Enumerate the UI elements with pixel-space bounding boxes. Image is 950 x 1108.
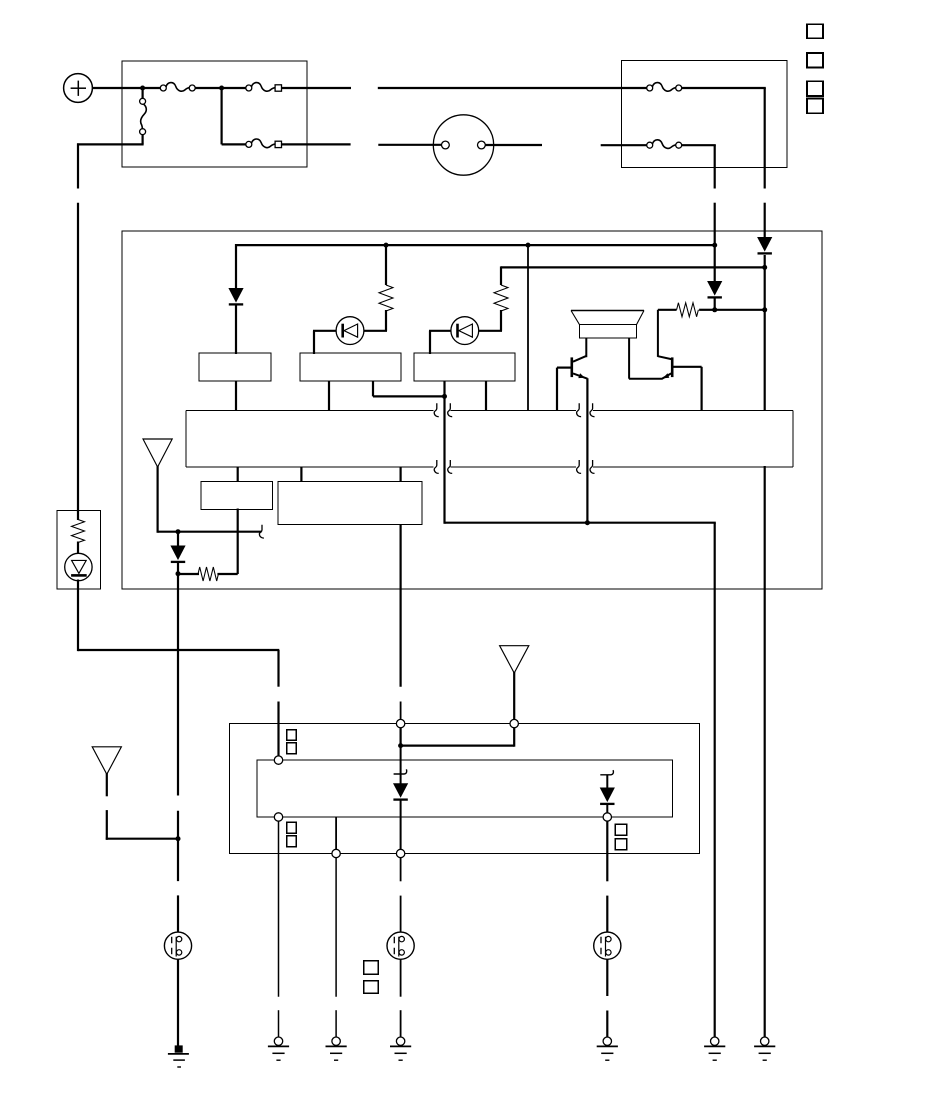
connector C3 <box>594 932 621 959</box>
wire ground lead 3 upper <box>400 858 402 882</box>
break mark diode D5 <box>394 769 407 774</box>
wire ground lead 1 lower <box>278 1010 280 1037</box>
wire BZ1 left pin <box>585 338 587 357</box>
wire D3 to node <box>714 297 716 311</box>
break mark bottom-right of wire A <box>448 460 453 473</box>
wire D2 branch below connector <box>764 466 766 1037</box>
transistor Q2 base wire <box>673 366 701 368</box>
fuse F5 <box>647 142 653 148</box>
connector label square 4 <box>807 99 823 114</box>
break mark top-right of wire B <box>590 403 595 416</box>
pin label square lower 2 <box>287 836 297 847</box>
wire D4 node down out of unit <box>177 574 179 796</box>
fuse F3 <box>246 141 252 147</box>
wire ground lead 5 lower <box>606 1011 608 1038</box>
connector label square 1 <box>807 24 823 38</box>
wire ground lead 5 upper <box>606 821 608 881</box>
connector row edge right side <box>792 410 794 467</box>
connector row edge bottom-mid segment <box>451 466 576 468</box>
node K2-K3 junction <box>442 394 447 399</box>
connector label square C2-1 <box>364 961 378 975</box>
terminal circle D6 output <box>603 813 611 821</box>
wire F3 output <box>281 143 350 145</box>
break mark diode D6 <box>600 770 613 775</box>
wire ground lead 5 below connector <box>606 959 608 996</box>
antenna symbol A1 <box>143 439 172 467</box>
wire pass-through A <box>443 396 445 523</box>
transistor Q2 emitter <box>629 373 671 378</box>
pin label square upper 2 <box>287 743 297 754</box>
wire node to F3 <box>221 87 223 144</box>
node relay internal <box>398 743 403 748</box>
wire Q1 emitter down <box>586 378 588 524</box>
wire right drop to diode D2 <box>764 238 766 240</box>
terminal circle inner bottom left <box>274 813 282 821</box>
break mark bottom-right of wire B <box>590 460 595 473</box>
transistor Q2 collector <box>658 356 671 359</box>
antenna symbol A2 <box>500 646 529 673</box>
diode D2 <box>757 237 772 252</box>
wire C1 to ground <box>177 959 179 1046</box>
connector row edge top-right segment <box>593 409 793 411</box>
transistor Q1 collector <box>573 356 586 362</box>
transistor Q1 base wire <box>557 367 571 369</box>
wire junction to diode D4 <box>177 532 179 546</box>
diode D6 <box>600 788 615 803</box>
wire to fuse box 2 lower <box>601 144 647 146</box>
wire D2 down to connector <box>764 255 766 411</box>
break mark top-right of wire A <box>448 403 453 416</box>
wire right drop lower segment <box>764 203 766 239</box>
wire K1 to connector row <box>235 381 237 411</box>
node A1-D4 junction <box>176 529 181 534</box>
wire A2 terminal down <box>513 728 515 747</box>
wire feed to resistor R2 <box>500 266 502 285</box>
break mark bottom-left of wire A <box>434 460 439 473</box>
node feed line 2 right <box>762 265 767 270</box>
fuse box 2 (under-dash fuse box) <box>622 61 788 168</box>
ground G7 <box>761 1037 769 1045</box>
wire A3 down upper <box>106 773 108 796</box>
fuse F1 <box>160 85 166 91</box>
wire left drop to connector C1 <box>177 811 179 881</box>
ground G4 bolt <box>175 1045 183 1052</box>
wire connector to K5 pin1 <box>300 467 302 482</box>
box K5 <box>278 482 422 525</box>
wire bus to diode D3 <box>714 245 716 282</box>
wire A3 down lower <box>106 810 108 840</box>
wire bottom bus <box>445 522 716 524</box>
wire BZ1 right pin <box>628 338 630 379</box>
node bus vertical feed <box>526 243 531 248</box>
wire K3 pin 1 down <box>443 381 445 397</box>
wire bottom bus down right <box>714 523 716 1037</box>
pin label square lower 1 <box>287 822 297 833</box>
terminal circle switch feed <box>332 849 340 857</box>
wire left drop upper segment <box>77 143 79 188</box>
connector row edge top-mid segment <box>451 409 576 411</box>
wire node to diode D5 <box>400 746 402 784</box>
ground G3 <box>396 1037 404 1045</box>
wire F5 to drop <box>682 144 716 146</box>
diode D1 <box>228 288 243 303</box>
wire R2 to LED2 <box>500 310 502 331</box>
box K4 <box>201 482 273 510</box>
wire connector to K5 pin2 <box>400 467 402 482</box>
node junction F1 output <box>219 86 224 91</box>
relay inner box outline <box>257 760 673 817</box>
terminal circle D5 output <box>396 849 404 857</box>
transistor Q2 bar <box>671 357 674 377</box>
ground G1 <box>274 1037 282 1045</box>
wire K2 pin 2 down <box>372 381 374 396</box>
wire K5 output down <box>400 524 402 686</box>
pin label square right 1 <box>615 824 627 835</box>
zener diode ZD1 circle <box>65 553 92 580</box>
wire D6 to terminal <box>606 804 608 814</box>
wire ground lead 2 lower <box>335 1010 337 1037</box>
battery B1 positive terminal <box>64 74 93 103</box>
wire LED1 to box K2 <box>313 330 337 332</box>
box K2 <box>300 353 401 381</box>
node D4 output <box>176 571 181 576</box>
fuse F2 <box>246 85 252 91</box>
terminal circle center drop <box>274 756 282 764</box>
connector label square 2 <box>807 53 823 67</box>
node emitter to bottom bus <box>585 520 590 525</box>
wire to ignition switch <box>378 144 442 146</box>
node diode line right <box>762 307 767 312</box>
connector label square 3 <box>807 81 823 96</box>
ground G6 <box>711 1037 719 1045</box>
wire ground lead 3 lower <box>400 1010 402 1037</box>
transistor Q1 emitter <box>573 373 587 378</box>
terminal circle A2 line <box>510 719 518 727</box>
wire ground lead 2 upper <box>335 858 337 997</box>
transistor Q1 emitter arrow <box>578 373 585 378</box>
node A3 to left drop <box>176 836 181 841</box>
ignition switch SW1 <box>433 115 493 175</box>
connector row edge bottom-right segment <box>593 466 793 468</box>
zener diode ZD1 triangle <box>72 560 87 573</box>
wire K3 pin 2 down <box>485 381 487 411</box>
box K1 <box>199 353 271 381</box>
wire mark to diode D6 <box>606 775 608 787</box>
wire resistor R3 right lead <box>699 309 715 311</box>
wire NS1 to center drop <box>78 649 279 651</box>
wire A1 down <box>157 466 159 533</box>
wire D5 to terminal <box>400 800 402 850</box>
wire ground lead 1 upper <box>278 821 280 997</box>
wire K5 output lower <box>400 702 402 720</box>
wire center drop lower <box>277 702 279 757</box>
wire FL1 to left drop <box>77 143 144 145</box>
antenna symbol A3 <box>92 747 121 775</box>
wire D4 to node <box>177 562 179 575</box>
fuse box 1 (main fuse box) <box>122 61 307 167</box>
wire ignition switch output <box>485 144 542 146</box>
wire battery to fuse box <box>92 87 161 89</box>
pin label square right 2 <box>615 839 627 850</box>
transistor Q2 emitter arrow <box>663 373 670 378</box>
control unit U1 outline <box>122 231 822 589</box>
box K3 <box>414 353 515 381</box>
ground G4 <box>168 1053 189 1055</box>
resistor R2 <box>494 285 508 311</box>
wire bus to resistor R1 <box>385 245 387 285</box>
wire A1 horizontal <box>158 531 262 533</box>
connector C1 <box>164 932 191 959</box>
wire R4 to box K4 <box>217 573 237 575</box>
wire node to resistor R4 <box>178 573 199 575</box>
wire left drop lower segment <box>77 203 79 512</box>
node bus-resistor R1 <box>384 243 389 248</box>
break mark top-left of wire B <box>577 403 582 416</box>
node D3 output <box>712 307 717 312</box>
wire connector to K4 <box>237 467 239 482</box>
diode D4 <box>170 546 185 561</box>
transistor Q1 bar <box>570 357 573 377</box>
wire drop to bus segment <box>714 203 716 247</box>
node junction battery feed <box>140 86 145 91</box>
terminal circle K5 line <box>396 719 404 727</box>
break mark top-left of wire A <box>434 403 439 416</box>
wire R5 to diode circle <box>77 542 79 555</box>
connector label square C2-2 <box>364 981 378 994</box>
wire bus to diode D1 <box>235 244 237 288</box>
fusible link FL1 <box>140 98 146 104</box>
resistor R1 <box>379 285 393 311</box>
resistor R4 <box>198 567 218 581</box>
wire relay internal bus <box>400 744 515 746</box>
photocoupler LED2 <box>451 317 479 345</box>
pin label square upper 1 <box>287 730 297 741</box>
noise suppressor NS1 box <box>57 511 101 590</box>
node bus right end <box>712 243 717 248</box>
diode D3 <box>707 281 722 296</box>
horn/buzzer BZ1 <box>571 310 644 312</box>
connector C2 <box>387 932 414 959</box>
wire R1 to LED1 <box>385 310 387 331</box>
ground G5 <box>603 1037 611 1045</box>
wire D1 to box K1 <box>235 305 237 354</box>
connector row edge bottom-left segment <box>186 466 433 468</box>
wire LED2 to box K3 <box>429 330 452 332</box>
diode D5 <box>393 783 408 798</box>
connector row edge left side <box>185 410 187 467</box>
wire F1 to node <box>195 87 246 89</box>
wire inner box to terminal <box>335 817 337 850</box>
wire A2 down <box>513 672 515 720</box>
wire node to node <box>715 309 765 311</box>
wire bus feed down to connector <box>527 245 529 411</box>
resistor R3 <box>677 303 699 317</box>
connector row edge top-left segment <box>186 409 433 411</box>
wire center drop upper <box>277 650 279 687</box>
wire F4 to right drop <box>682 87 766 89</box>
wire K2 pin 1 down <box>328 381 330 411</box>
wire F2 to fuse box 2 segment 1 <box>281 87 351 89</box>
wire power bus <box>235 244 715 246</box>
wire ground lead 3 mid <box>400 896 402 933</box>
break mark wire A1 end <box>259 525 264 538</box>
zener diode ZD1 bar <box>71 574 87 577</box>
wire K5 terminal down <box>400 728 402 747</box>
break mark bottom-left of wire B <box>577 460 582 473</box>
fuse F4 <box>647 85 653 91</box>
photocoupler LED1 <box>336 317 364 345</box>
resistor R5 <box>72 520 85 543</box>
wire R3 to T2 collector <box>658 309 677 311</box>
wire F2 to fuse box 2 segment 2 <box>378 87 647 89</box>
relay unit box outline <box>230 724 700 854</box>
ground G2 <box>332 1037 340 1045</box>
wire ground lead 5 mid <box>606 896 608 933</box>
wire feed line 2 <box>501 266 765 268</box>
wire NS1 output down <box>77 580 79 652</box>
wire ground lead 3 below connector <box>400 959 402 996</box>
